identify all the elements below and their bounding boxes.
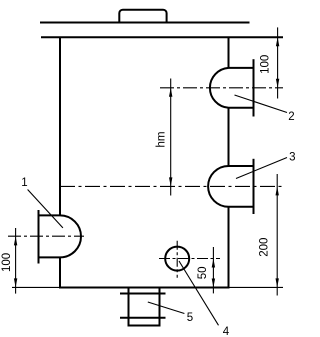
dimension 200 right (259, 174, 279, 296)
label 1 (21, 177, 27, 189)
svg-text:50: 50 (197, 267, 209, 280)
svg-text:100: 100 (1, 253, 13, 272)
manhole cap on lid (119, 10, 166, 23)
svg-text:5: 5 (187, 312, 193, 324)
nozzle 2 centerline (extends right as extension line) (160, 87, 283, 89)
bottom extension line left (12, 286, 59, 288)
leader line 1 (28, 190, 63, 228)
bottom pipe 5 (120, 288, 166, 326)
circle 4 horizontal centerline / extension for dim 50 (159, 258, 220, 260)
lid top line (40, 22, 250, 24)
bottom extension line right (230, 286, 284, 288)
dimension hm (156, 79, 173, 196)
svg-text:200: 200 (259, 238, 271, 257)
leader line 3 (236, 158, 287, 179)
leader line 5 (148, 302, 185, 314)
nozzle 2 (right wall, upper) (210, 59, 254, 116)
svg-text:3: 3 (289, 151, 295, 163)
label 4 (223, 326, 230, 337)
tank left wall (59, 37, 61, 288)
svg-text:4: 4 (223, 326, 230, 337)
dimension 100 top right (260, 27, 280, 98)
drain opening 4 (circle) (165, 247, 189, 271)
tank top line (extends right as extension line for dim 100) (41, 36, 283, 38)
dimension 100 left (1, 228, 17, 294)
svg-text:hm: hm (156, 132, 168, 148)
label 2 (288, 111, 294, 123)
nozzle 3 (right wall, lower) (208, 159, 253, 214)
svg-text:100: 100 (260, 55, 272, 74)
circle 4 vertical centerline (176, 241, 178, 278)
nozzle 1 (left wall) (39, 210, 82, 264)
nozzle 1 centerline (8, 235, 84, 237)
leader line 4 (179, 261, 219, 325)
svg-text:2: 2 (288, 111, 294, 123)
label 3 (289, 151, 295, 163)
label 5 (187, 312, 193, 324)
nozzle 3 centerline (extends right as extension line) (60, 185, 283, 187)
svg-text:1: 1 (21, 177, 27, 189)
leader line 2 (235, 95, 288, 113)
tank right wall (228, 37, 230, 288)
tank bottom line (59, 287, 230, 289)
dimension 50 (197, 247, 215, 293)
